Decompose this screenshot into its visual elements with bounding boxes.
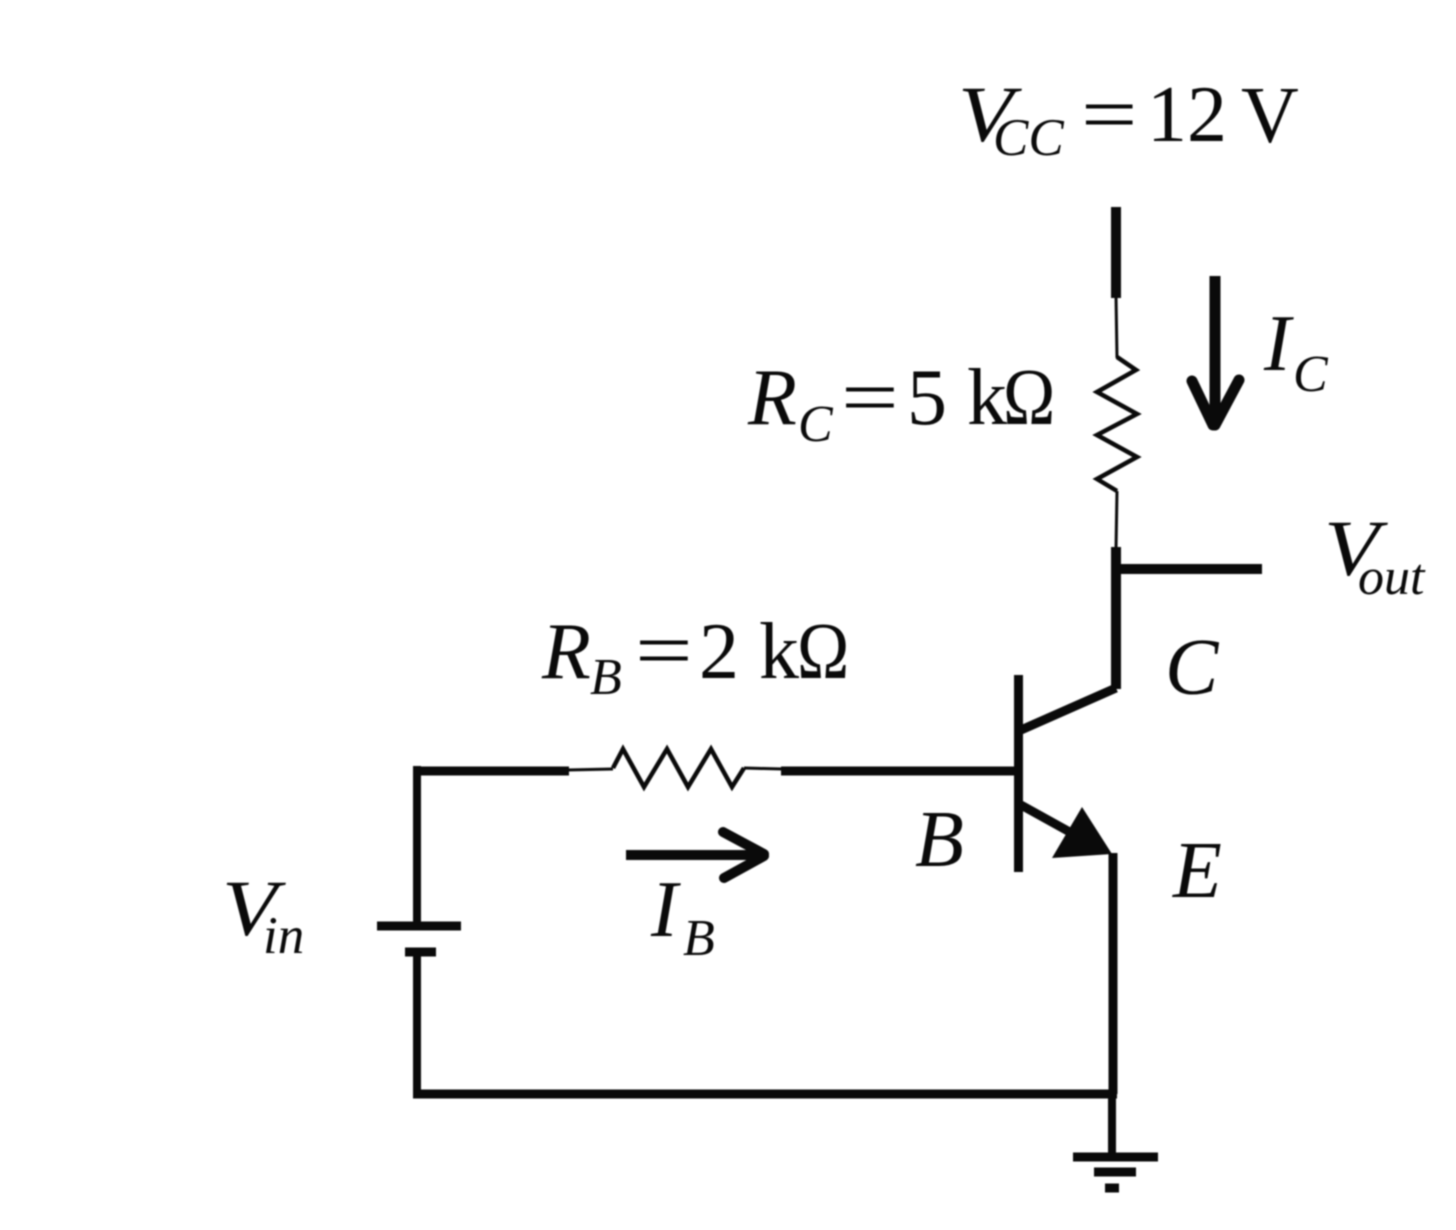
- wire ground stem: [1108, 1094, 1116, 1157]
- svg-text:5 k: 5 k: [907, 354, 1007, 442]
- transistor Q1 emitter arrowhead: [1052, 807, 1112, 858]
- transistor Q1 emitter diagonal: [1021, 805, 1095, 846]
- wire base right thick segment: [781, 767, 1016, 776]
- svg-text:=: =: [1081, 69, 1137, 158]
- wire collector column: [1111, 547, 1121, 689]
- wire Vout stub: [1112, 564, 1262, 574]
- svg-text:out: out: [1358, 549, 1426, 606]
- svg-text:E: E: [1172, 827, 1222, 915]
- label Vin: [222, 865, 304, 965]
- current arrow IB: [626, 832, 764, 878]
- svg-text:R: R: [747, 354, 797, 442]
- wire emitter column: [1109, 853, 1118, 1094]
- label IC: [1263, 300, 1329, 403]
- transistor Q1 collector diagonal: [1021, 688, 1116, 730]
- resistor RC zigzag: [1097, 357, 1137, 491]
- svg-text:Ω: Ω: [1003, 354, 1055, 442]
- svg-text:=: =: [841, 353, 899, 442]
- ground bar 3: [1105, 1184, 1119, 1193]
- svg-text:in: in: [263, 907, 304, 965]
- battery Vin top plate: [377, 922, 461, 931]
- label IB: [650, 866, 715, 967]
- wire thin lead below RC: [1116, 491, 1117, 549]
- svg-text:I: I: [1263, 300, 1294, 388]
- wire VCC stub: [1111, 207, 1121, 298]
- transistor Q1 base bar: [1014, 675, 1023, 872]
- wire Vin left vertical: [413, 766, 421, 922]
- wire thin lead right of RB: [744, 768, 783, 769]
- wire base left thick segment: [413, 767, 569, 776]
- svg-text:B: B: [683, 910, 715, 967]
- svg-text:C: C: [1293, 346, 1329, 403]
- ground bar 2: [1094, 1168, 1136, 1177]
- wire bottom return: [413, 1090, 1117, 1099]
- battery Vin bottom plate: [405, 948, 436, 957]
- svg-text:Ω: Ω: [797, 608, 849, 696]
- svg-text:B: B: [915, 796, 964, 884]
- svg-text:C: C: [1165, 624, 1220, 712]
- wire thin lead left of RB: [567, 769, 613, 770]
- svg-text:B: B: [590, 649, 622, 706]
- svg-text:I: I: [650, 866, 681, 954]
- current arrow IC: [1192, 276, 1239, 425]
- svg-text:2 k: 2 k: [699, 608, 799, 696]
- label VCC = 12 V: [958, 69, 1299, 167]
- label RB = 2 kOhm: [541, 606, 849, 706]
- wire thin lead above RC: [1116, 296, 1117, 358]
- svg-text:CC: CC: [993, 109, 1064, 167]
- svg-text:C: C: [798, 396, 834, 453]
- svg-text:12: 12: [1147, 71, 1227, 159]
- wire below battery: [413, 956, 421, 1098]
- ground bar 1: [1073, 1153, 1158, 1162]
- svg-text:V: V: [1241, 72, 1299, 160]
- svg-text:=: =: [635, 606, 693, 695]
- label RC = 5 kOhm: [747, 353, 1055, 453]
- label Vout: [1324, 505, 1426, 606]
- resistor RB zigzag: [613, 749, 744, 787]
- svg-text:R: R: [541, 608, 591, 696]
